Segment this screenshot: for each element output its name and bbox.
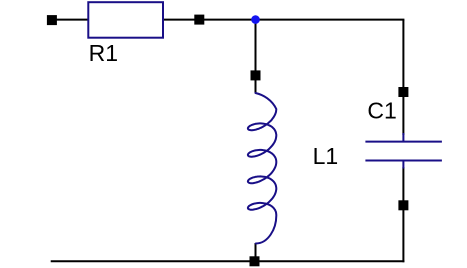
wire: middle vertical from junction node to L1 coil xyxy=(255,20,257,93)
terminal: input pin square xyxy=(47,15,57,25)
svg-text:C1: C1 xyxy=(367,98,396,124)
resistor R1 body xyxy=(88,2,163,38)
terminal: C1 top pin square xyxy=(398,87,408,97)
terminal: L1 bottom pin square xyxy=(250,256,260,266)
svg-text:R1: R1 xyxy=(89,40,118,66)
node: junction dot (blue) xyxy=(251,15,260,24)
terminal: R1 right pin square xyxy=(194,15,204,25)
terminal: L1 top pin square xyxy=(251,70,261,80)
wire: top net from R1 body to top-right corner xyxy=(163,19,404,21)
capacitor C1 bottom lead stub (blue) xyxy=(402,161,404,169)
inductor L1 coil xyxy=(248,93,276,244)
wire: L1 bottom lead to bottom net xyxy=(255,243,257,261)
wire: right vertical from C1 bottom plate to bottom-right corner xyxy=(402,167,404,262)
terminal: C1 bottom pin square xyxy=(398,200,408,210)
capacitor C1 bottom plate xyxy=(365,160,442,162)
capacitor C1 top lead stub (blue) xyxy=(402,133,404,142)
wire: bottom net xyxy=(51,260,405,262)
wire: top net from input terminal to R1 body xyxy=(52,19,88,21)
wire: right vertical down to C1 top plate xyxy=(402,20,404,135)
svg-text:L1: L1 xyxy=(313,143,339,169)
capacitor C1 top plate xyxy=(365,141,442,143)
